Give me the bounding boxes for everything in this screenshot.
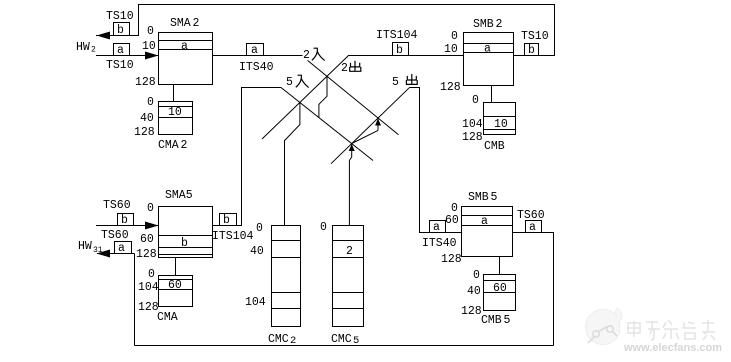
glyph ru (enter) for 5-in: [296, 75, 308, 87]
svg-text:www.elecfans.com: www.elecfans.com: [623, 342, 722, 354]
svg-text:128: 128: [134, 126, 155, 139]
svg-text:0: 0: [256, 222, 263, 235]
watermark logo circle: [586, 308, 622, 344]
svg-text:128: 128: [135, 76, 156, 89]
svg-text:0: 0: [451, 30, 458, 43]
block CMC5: [333, 226, 364, 327]
block CMA: [159, 276, 193, 307]
bottom return wire: [135, 345, 554, 347]
svg-text:60: 60: [445, 214, 459, 227]
svg-text:CMB: CMB: [484, 140, 505, 153]
wire SMA2 down to CMA2: [173, 85, 175, 102]
wire SMB5 down to CMB5: [499, 257, 501, 275]
svg-text:2: 2: [303, 49, 310, 62]
svg-text:TS60: TS60: [101, 229, 129, 242]
svg-text:40: 40: [140, 112, 154, 125]
svg-text:10: 10: [142, 40, 156, 53]
svg-text:CMC: CMC: [331, 333, 352, 346]
svg-text:60: 60: [493, 282, 507, 295]
box b (TS10 right of SMB2): [525, 44, 539, 56]
diagonal C (input 5 bus): [281, 88, 373, 161]
svg-text:5: 5: [353, 335, 359, 347]
box b (TS60 into SMA5): [118, 214, 134, 226]
svg-text:0: 0: [147, 96, 154, 109]
wire SMB5 right to bottom return: [513, 233, 554, 346]
svg-text:CMB: CMB: [481, 314, 502, 327]
svg-text:104: 104: [138, 281, 159, 294]
wire SMB2 down to CMB: [491, 86, 493, 103]
box a (ITS40 into SMB5): [430, 221, 446, 233]
crosspoint drop from X4 to CMC5 wire with up arrow: [349, 144, 351, 226]
box b (ITS104): [393, 43, 409, 56]
svg-text:CMC: CMC: [268, 333, 289, 346]
svg-text:a: a: [181, 40, 188, 53]
svg-text:128: 128: [136, 248, 157, 261]
box b (TS10 top left): [114, 23, 130, 36]
box a (TS10 bottom left): [114, 44, 130, 56]
svg-text:0: 0: [148, 268, 155, 281]
svg-text:ITS40: ITS40: [422, 237, 457, 250]
corner bracket right (output 5 to SMB5/ITS40): [409, 88, 461, 233]
crosspoint stub below X3 with up arrow: [377, 118, 379, 130]
svg-text:5: 5: [392, 76, 399, 89]
svg-text:CMA: CMA: [158, 139, 179, 152]
svg-text:b: b: [528, 44, 535, 57]
crosspoint drop from X1 joining bus C: [319, 76, 327, 117]
svg-text:10: 10: [168, 106, 182, 119]
block SMA5: [159, 207, 213, 258]
svg-text:5: 5: [286, 76, 293, 89]
block SMB5: [462, 207, 513, 257]
svg-text:128: 128: [440, 81, 461, 94]
wire TS60 input into SMA5: [96, 225, 159, 227]
svg-text:0: 0: [147, 25, 154, 38]
svg-text:ITS104: ITS104: [376, 29, 418, 42]
svg-text:0: 0: [320, 221, 327, 234]
glyph chu (exit) for 2-out: [350, 61, 361, 72]
svg-text:HW: HW: [76, 41, 90, 54]
svg-text:a: a: [481, 215, 488, 228]
svg-text:a: a: [433, 221, 440, 234]
svg-text:HW: HW: [78, 240, 92, 253]
svg-text:b: b: [223, 214, 230, 227]
svg-text:a: a: [251, 44, 258, 57]
corner bracket left (input 5 from SMA5/ITS104): [213, 88, 282, 226]
glyph chu (exit) for 5-out: [406, 74, 417, 85]
svg-text:60: 60: [168, 279, 182, 292]
wire ITS104 to SMB2: [348, 55, 464, 57]
diagonal B (output 2 bus): [262, 56, 349, 140]
svg-text:2: 2: [193, 17, 200, 30]
svg-text:2: 2: [496, 18, 503, 31]
arrow right into SMA5: [145, 222, 159, 230]
svg-text:ITS40: ITS40: [239, 61, 274, 74]
svg-text:SMA: SMA: [170, 17, 191, 30]
svg-text:128: 128: [138, 301, 159, 314]
svg-text:10: 10: [494, 118, 508, 131]
svg-text:TS10: TS10: [106, 10, 134, 23]
svg-text:128: 128: [462, 131, 483, 144]
svg-text:2: 2: [181, 139, 188, 152]
diagonal A (input 2 bus): [308, 60, 399, 134]
block CMC2: [272, 226, 301, 327]
svg-text:TS60: TS60: [103, 199, 131, 212]
svg-text:2: 2: [346, 245, 353, 258]
wire HW31 output with left arrow: [97, 253, 135, 255]
svg-text:5: 5: [491, 191, 498, 204]
block CMB5: [484, 275, 516, 311]
svg-text:b: b: [396, 44, 403, 57]
svg-text:128: 128: [441, 253, 462, 266]
svg-text:104: 104: [462, 118, 483, 131]
block SMB2: [464, 33, 514, 86]
block CMB: [484, 103, 516, 135]
svg-text:SMB: SMB: [473, 18, 494, 31]
svg-text:TS10: TS10: [521, 30, 549, 43]
svg-text:104: 104: [245, 296, 266, 309]
svg-text:SMA5: SMA5: [165, 189, 193, 202]
svg-text:0: 0: [147, 202, 154, 215]
box a (TS60 out of SMB5): [526, 221, 542, 233]
svg-text:0: 0: [473, 269, 480, 282]
svg-text:128: 128: [461, 305, 482, 318]
svg-text:CMA: CMA: [157, 311, 178, 324]
svg-text:2: 2: [341, 62, 348, 75]
wire SMA5 down to CMA: [175, 258, 177, 276]
svg-text:2: 2: [91, 46, 96, 55]
svg-text:b: b: [117, 24, 124, 37]
svg-text:40: 40: [250, 245, 264, 258]
wire HW2 input to SMA2: [96, 55, 159, 57]
svg-text:a: a: [484, 43, 491, 56]
svg-text:2: 2: [290, 335, 296, 347]
box a (ITS40): [247, 44, 264, 56]
svg-text:10: 10: [444, 43, 458, 56]
svg-text:TS10: TS10: [106, 59, 134, 72]
box a (TS60 out of SMA5): [115, 242, 132, 254]
svg-text:b: b: [181, 237, 188, 250]
diagonal D (output 5 bus): [331, 88, 409, 164]
svg-text:a: a: [117, 44, 124, 57]
crosspoint drop from X2 to CMC2 wire: [285, 102, 300, 225]
block CMA2: [159, 102, 193, 135]
block SMA2: [159, 33, 213, 85]
svg-text:60: 60: [140, 233, 154, 246]
svg-text:0: 0: [472, 94, 479, 107]
arrow right into SMA2: [145, 52, 159, 60]
arrow left into HW2 (top): [97, 32, 111, 40]
wire top loop from SMB2 TS10-b output to HW2: [96, 5, 555, 56]
svg-text:ITS104: ITS104: [212, 230, 254, 243]
wire SMA2 to ITS40: [213, 55, 303, 57]
svg-text:SMB: SMB: [468, 191, 489, 204]
connector X3 stub to X4: [352, 130, 378, 143]
wire down from a box to bottom return: [134, 254, 136, 346]
svg-text:40: 40: [467, 285, 481, 298]
watermark text dianzifashaoyou (simplified strokes): [628, 320, 715, 340]
svg-text:5: 5: [504, 314, 511, 327]
box b (ITS104 right of SMA5): [220, 214, 237, 226]
glyph ru (enter) for 2-in: [312, 48, 324, 60]
